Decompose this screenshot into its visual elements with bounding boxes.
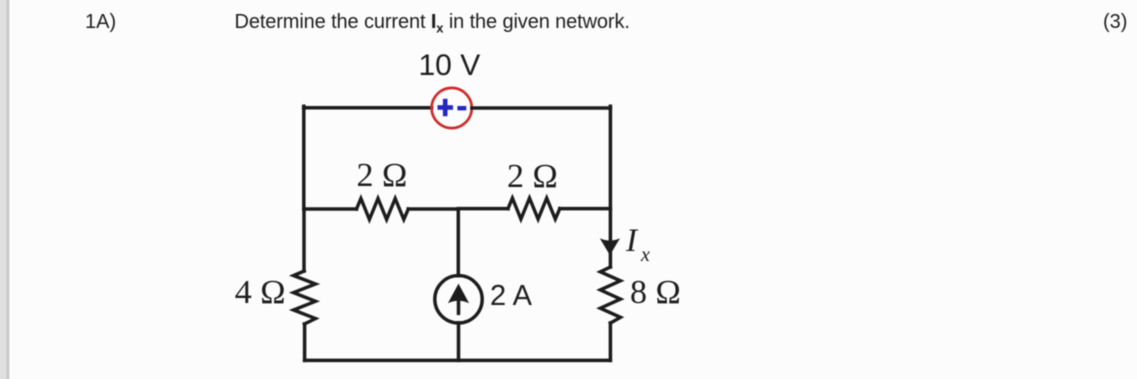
wire left lower (4 ohm bottom to bottom-left corner) [303,324,307,360]
current arrow Ix (points down) [600,238,620,255]
label 8 ohm (right branch resistor value) [630,274,681,312]
wire bottom (bottom rail) [305,359,611,363]
marks (3) [1103,11,1127,34]
wire middle horizontal (center node to 2 ohm right) [458,207,508,211]
label Ix (current arrow name) [626,223,650,267]
resistor 2 ohm right (zigzag) [508,198,560,219]
problem number 1A) [85,11,116,34]
wire right lower (8 ohm bottom to bottom-right corner) [609,323,613,360]
wire top right (voltage source - to node B) [472,106,611,110]
resistor 4 ohm (zigzag) [294,271,316,324]
resistor 8 ohm (zigzag) [600,267,620,323]
wire middle horizontal center (2 ohm left to center node) [408,207,458,211]
wire left upper (node A down to 4 ohm) [302,106,306,209]
wire middle horizontal left (node A branch to 2 ohm) [304,207,357,211]
problem statement text [235,11,630,36]
label 2 A (current source value) [490,280,532,313]
wire left middle segment (middle node to 4 ohm top) [302,209,306,271]
voltage source plus sign [438,99,454,116]
voltage source minus sign [457,106,466,110]
label 2 ohm (right resistor value) [507,158,558,196]
label 2 ohm (left resistor value) [357,157,408,195]
wire middle vertical upper (center node to current source) [457,209,461,276]
wire middle horizontal right (2 ohm right to node B wire) [560,207,611,211]
page left edge shadow band [0,0,11,379]
current source arrow shaft [457,296,461,313]
label 10 V (voltage source value) [419,49,481,83]
wire top left (node A to voltage source +) [304,106,432,110]
resistor 2 ohm left (zigzag) [357,199,409,220]
voltage source V1 10V [432,88,472,128]
wire right upper (node B down to Ix arrow and 8 ohm) [609,106,613,267]
wire middle vertical lower (current source to bottom rail) [457,323,461,361]
current source arrowhead (points up) [448,284,469,304]
label 4 ohm (left branch resistor value) [235,274,286,312]
current source I1 2A (circle) [435,276,482,323]
